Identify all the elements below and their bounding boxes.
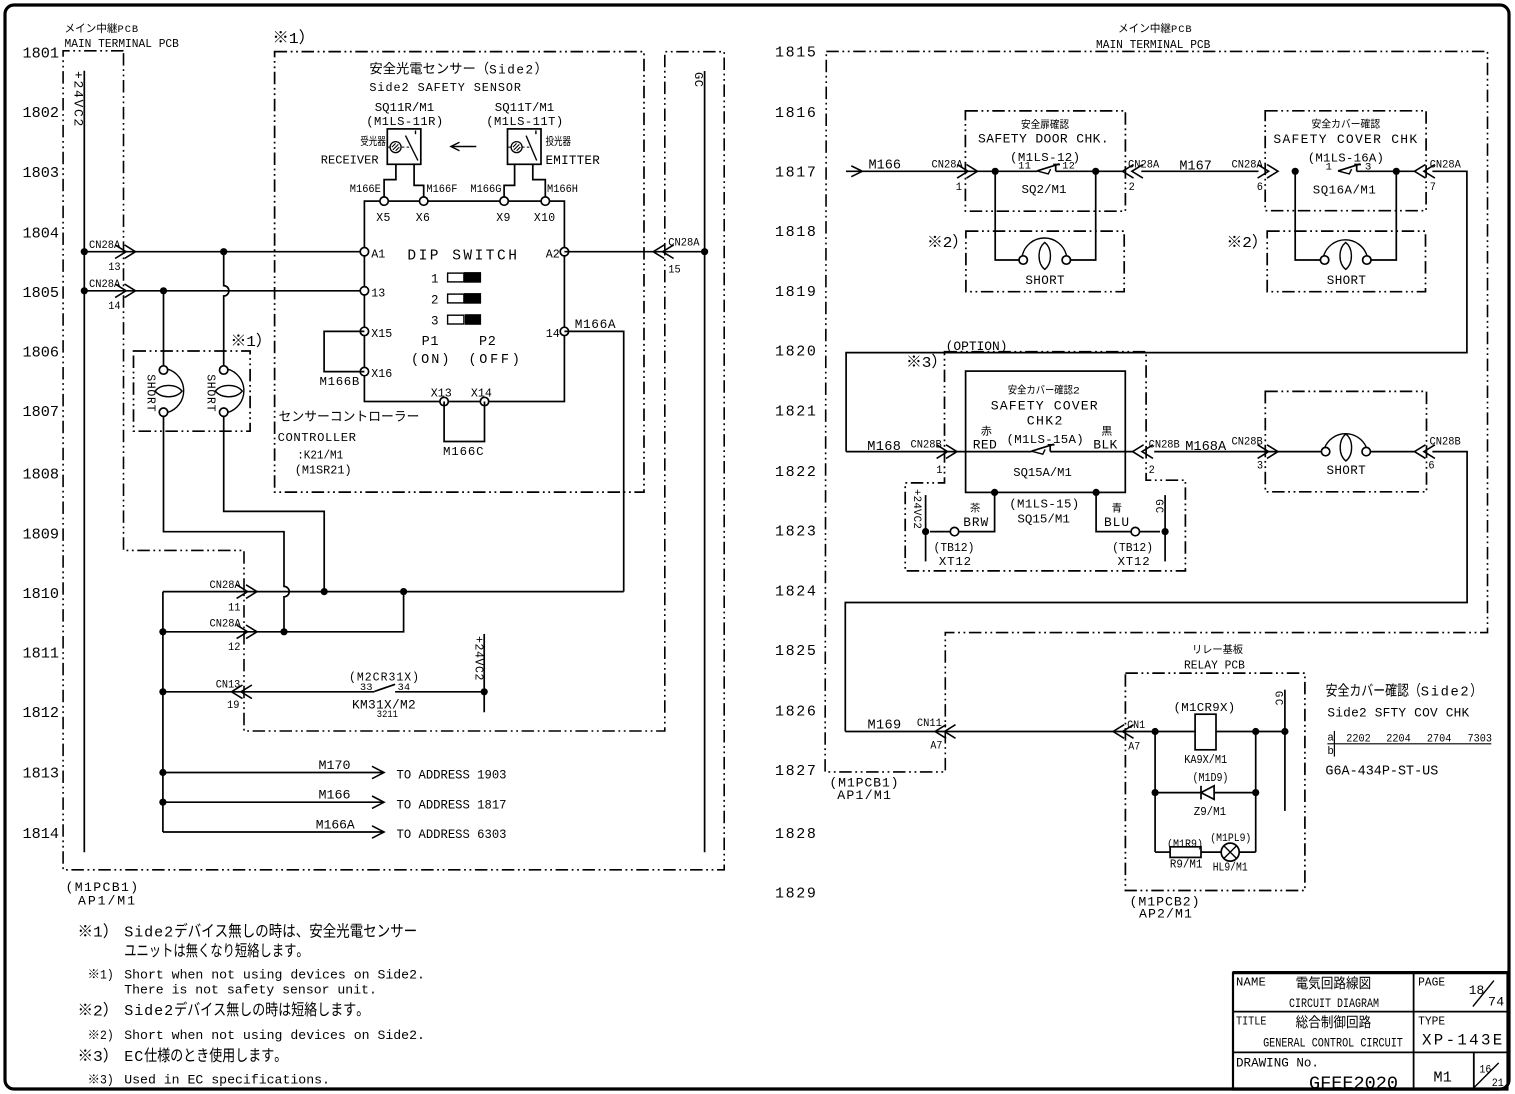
svg-text:1812: 1812: [23, 704, 59, 722]
terminal A2: [560, 248, 568, 256]
junction bus/12-wire: [159, 628, 166, 635]
svg-text:G6A-434P-ST-US: G6A-434P-ST-US: [1325, 764, 1438, 779]
wire CN13-19 (row 1812): [163, 691, 374, 693]
arrow M166 source: [851, 166, 862, 177]
title block column line: [1413, 973, 1415, 1090]
svg-text:M167: M167: [1179, 160, 1211, 175]
note *1 japanese line1: [80, 925, 91, 936]
svg-text:EMITTER: EMITTER: [546, 154, 601, 168]
svg-text:CN28A: CN28A: [89, 279, 121, 291]
svg-text:1817: 1817: [775, 164, 818, 181]
safety sensor unit dashed box (*1): [275, 52, 644, 493]
svg-text:CN28A: CN28A: [89, 240, 121, 252]
svg-text:a: a: [1327, 732, 1334, 744]
short box (*2) left dashed: [966, 231, 1124, 292]
svg-text:SQ2/M1: SQ2/M1: [1022, 183, 1067, 197]
dip switch 3: [448, 315, 464, 324]
contact SQ15A/M1: [1032, 444, 1054, 451]
svg-text:M169: M169: [868, 718, 902, 733]
svg-text:CN11: CN11: [917, 718, 942, 730]
svg-text:SQ11T/M1: SQ11T/M1: [495, 101, 554, 115]
connector chevrons CN28A pin6: [1267, 165, 1278, 179]
emitter switch blade: [526, 136, 537, 161]
svg-text:1: 1: [246, 334, 256, 351]
wire door-chk left to jumper: [995, 171, 1019, 260]
svg-text:BLU: BLU: [1104, 515, 1130, 530]
connector chevrons CN28A pin7 (left-pointing): [1415, 165, 1426, 179]
svg-text:SHORT: SHORT: [143, 374, 156, 412]
wire emitter pin to X9: [504, 164, 514, 197]
label safety cover check2 japanese: [1008, 385, 1016, 395]
svg-text:3: 3: [1257, 460, 1263, 472]
svg-text:AP1/M1: AP1/M1: [78, 893, 137, 908]
wire A2 to CN28A-15 and GC rail: [564, 251, 704, 253]
svg-text:A1: A1: [371, 248, 385, 261]
svg-text:(M1SR21): (M1SR21): [295, 463, 352, 477]
wire M170 to address 1903: [163, 772, 384, 774]
junction cover-chk right: [1393, 168, 1400, 175]
label red japanese: [981, 426, 991, 436]
svg-text:CN28A: CN28A: [1232, 159, 1264, 171]
short-plugs dashed box (*1): [134, 351, 251, 431]
note *1 japanese line2: [125, 945, 135, 955]
contact KM31X/M2 33-34 (slash): [374, 684, 395, 691]
svg-text:1804: 1804: [23, 224, 59, 242]
svg-text:14: 14: [546, 328, 560, 341]
svg-text:2: 2: [1149, 465, 1155, 477]
wire branch to SHORT plug 1 (from CN28A-14): [163, 291, 165, 366]
note *3 japanese: [80, 1049, 91, 1060]
svg-text:19: 19: [227, 700, 239, 712]
svg-text:NAME: NAME: [1236, 976, 1266, 990]
svg-text:A7: A7: [1128, 741, 1140, 753]
svg-text:TO ADDRESS 1903: TO ADDRESS 1903: [397, 767, 507, 783]
svg-text:13: 13: [108, 262, 120, 274]
note *3 english: [89, 1074, 98, 1083]
svg-text:CONTROLLER: CONTROLLER: [278, 431, 357, 445]
terminal TB12 BLU: [1131, 527, 1139, 535]
svg-text:1: 1: [936, 465, 942, 477]
svg-text:AP2/M1: AP2/M1: [1139, 907, 1193, 922]
label relay pcb japanese: [1194, 645, 1200, 654]
svg-text:X15: X15: [371, 328, 392, 341]
svg-text:1811: 1811: [23, 645, 59, 663]
svg-text:+24VC2: +24VC2: [910, 489, 922, 529]
svg-text:PAGE: PAGE: [1418, 975, 1445, 990]
svg-text:EC: EC: [124, 1048, 144, 1066]
short plug SHORT 1 (jumper): [159, 366, 167, 374]
svg-text:RECEIVER: RECEIVER: [321, 153, 379, 167]
wire M168 (row 1821) to contact: [846, 451, 1031, 453]
junction chk2 bottom left: [991, 489, 998, 496]
wire cover-chk right to jumper: [1371, 171, 1396, 260]
svg-text:X16: X16: [371, 368, 392, 381]
svg-text:+24VC2: +24VC2: [70, 71, 85, 128]
wire cover-chk left to jumper: [1295, 171, 1320, 260]
svg-text:1820: 1820: [775, 344, 818, 361]
label sensor controller japanese: [279, 411, 290, 421]
option dashed outline: [905, 352, 1185, 571]
wire chk2 right to TB12 BLU terminal: [1096, 492, 1160, 531]
power stub +24VC2 (row 1812): [483, 634, 485, 712]
net GC stub (TB12): [1164, 495, 1166, 561]
svg-text:SHORT: SHORT: [1327, 274, 1367, 288]
svg-text:CN1: CN1: [1127, 719, 1145, 731]
svg-text:RELAY PCB: RELAY PCB: [1184, 660, 1245, 673]
terminal 13: [360, 287, 368, 295]
svg-text:SAFETY DOOR CHK.: SAFETY DOOR CHK.: [978, 131, 1109, 146]
wire resistor to lamp: [1201, 851, 1221, 853]
svg-text:11: 11: [228, 602, 240, 614]
junction +24VC2 / CN28A-14: [81, 287, 88, 294]
terminal A1: [360, 248, 368, 256]
dip switch 2: [448, 294, 464, 303]
wire CN28A-12 (row 1811) with riser to 11-wire: [163, 592, 404, 632]
svg-text:AP1/M1: AP1/M1: [837, 788, 892, 803]
junction relay wire right: [1252, 728, 1259, 735]
svg-text:11: 11: [1018, 161, 1031, 172]
terminal X5: [380, 197, 388, 205]
svg-text:TYPE: TYPE: [1418, 1014, 1445, 1029]
label *2) left: [929, 236, 940, 247]
title block row line 2: [1233, 1051, 1508, 1053]
svg-text:MAIN TERMINAL PCB: MAIN TERMINAL PCB: [65, 37, 179, 52]
svg-text:1813: 1813: [23, 765, 59, 783]
connector chevrons CN28A pin13: [125, 245, 136, 259]
svg-text:PCB: PCB: [118, 24, 140, 36]
wire relay left branch down: [1154, 732, 1156, 853]
junction CN28A-13 branch to SHORT plug 2: [220, 248, 227, 255]
label *3): [908, 355, 919, 366]
svg-text:Side2: Side2: [124, 1002, 174, 1020]
svg-text:A2: A2: [546, 248, 560, 261]
note *2 japanese: [80, 1004, 91, 1015]
safety cover check dashed box: [1265, 111, 1426, 211]
svg-text:CN28B: CN28B: [1149, 439, 1180, 451]
junction diode left: [1152, 789, 1159, 796]
wire KM31X to +24VC2 stub: [395, 691, 484, 693]
svg-text:X5: X5: [376, 212, 391, 225]
svg-text:BRW: BRW: [963, 515, 989, 530]
svg-text:Z9/M1: Z9/M1: [1194, 806, 1226, 820]
jumper M166B loop X15-X16: [324, 331, 364, 371]
svg-text:1821: 1821: [775, 404, 818, 421]
svg-text:2: 2: [431, 293, 439, 307]
connector chevrons CN28A pin2 (left-pointing): [1123, 165, 1134, 179]
svg-text:M170: M170: [319, 758, 351, 773]
connector chevrons CN28A pin1: [967, 165, 978, 179]
svg-text:SAFETY COVER: SAFETY COVER: [991, 398, 1099, 413]
svg-text:1819: 1819: [775, 284, 818, 301]
svg-text:(M1LS-16A): (M1LS-16A): [1308, 152, 1384, 166]
svg-text:M1: M1: [1433, 1068, 1451, 1086]
wire M167 between blocks: [1141, 170, 1258, 172]
svg-text:SHORT: SHORT: [204, 374, 217, 412]
wire CN28A-13 from +24VC2 to controller A1: [84, 251, 364, 253]
svg-text:HL9/M1: HL9/M1: [1213, 862, 1248, 875]
wire resistor-lamp branch: [1155, 851, 1170, 853]
svg-text:CN28A: CN28A: [668, 237, 700, 249]
left board outline M1PCB1 AP1/M1 (dash-dot): [63, 51, 724, 870]
svg-text:GC: GC: [1271, 691, 1283, 707]
svg-text:1803: 1803: [23, 164, 59, 182]
junction on CN28A-11 wire: [321, 588, 328, 595]
svg-text:P2: P2: [479, 335, 497, 350]
svg-text:Side2: Side2: [489, 62, 534, 77]
label safety cover check japanese: [1312, 119, 1321, 129]
svg-text:1826: 1826: [775, 703, 818, 720]
terminal TB12 BRW: [950, 527, 958, 535]
svg-text:R9/M1: R9/M1: [1170, 858, 1202, 872]
receiver screw symbol: [388, 146, 412, 148]
svg-text:1815: 1815: [775, 45, 818, 62]
emitter screw symbol: [508, 146, 532, 148]
svg-text:1822: 1822: [775, 464, 818, 481]
wire M168A to short box: [1154, 451, 1321, 453]
connector chevrons CN28A pin12: [246, 625, 257, 639]
contact SQ16A/M1 1-3: [1338, 164, 1360, 171]
wire M169/CN11 row 1826: [845, 731, 1195, 733]
svg-text:M166F: M166F: [426, 184, 457, 196]
svg-text:Short when not using devices o: Short when not using devices on Side2.: [124, 967, 425, 982]
svg-text:2: 2: [1129, 182, 1135, 194]
label main terminal PCB (right, japanese): [1119, 24, 1127, 33]
right board outline M1PCB1 (dash-dot): [825, 51, 1487, 772]
junction diode right: [1252, 789, 1259, 796]
short box CN28B dashed: [1265, 391, 1426, 491]
svg-text:M166G: M166G: [470, 184, 501, 196]
title block row line 1: [1233, 1011, 1508, 1013]
wire M166 to address 1817: [163, 801, 384, 803]
svg-text:M166E: M166E: [350, 184, 381, 196]
svg-text:X9: X9: [496, 212, 511, 225]
label blue japanese: [1112, 503, 1121, 513]
wire CN28B-6 to row 1824 loop to relay row: [845, 452, 1467, 732]
power rail +24VC2 (left): [83, 71, 85, 852]
svg-text:SQ11R/M1: SQ11R/M1: [375, 101, 434, 115]
connector chevrons CN28A pin11: [246, 585, 257, 599]
svg-text:TO ADDRESS 6303: TO ADDRESS 6303: [397, 827, 507, 843]
svg-text:1825: 1825: [775, 643, 818, 660]
label *1) top: [275, 31, 287, 43]
svg-text:6: 6: [1428, 460, 1434, 472]
svg-text:(ON): (ON): [411, 353, 452, 368]
svg-text:Side2: Side2: [1421, 685, 1470, 701]
svg-text:(M2CR31X): (M2CR31X): [349, 671, 420, 684]
diode Z9/M1 (M1D9): [1200, 786, 1202, 800]
contact SQ2/M1 11-12: [1037, 164, 1059, 171]
wire diode branch: [1155, 792, 1201, 794]
svg-text:1814: 1814: [23, 825, 59, 843]
svg-text:X14: X14: [471, 388, 492, 401]
svg-text:2: 2: [1242, 235, 1252, 252]
svg-text:DIP SWITCH: DIP SWITCH: [407, 249, 519, 265]
svg-text:X6: X6: [416, 212, 431, 225]
svg-text:Side2: Side2: [124, 924, 174, 942]
svg-text:(M1LS-11R): (M1LS-11R): [366, 115, 443, 129]
svg-text:2: 2: [93, 1003, 103, 1020]
svg-text:M168A: M168A: [1185, 440, 1227, 455]
wire receiver pin to X5: [384, 164, 396, 197]
svg-text:A7: A7: [930, 740, 942, 752]
wire short plug2 to row-1810 wire: [224, 416, 325, 591]
svg-text:SHORT: SHORT: [1327, 464, 1367, 478]
svg-text:GC: GC: [1152, 499, 1164, 514]
short jumper CN28B (plug): [1321, 447, 1329, 455]
junction GC stub (TB12): [1162, 528, 1169, 535]
svg-text:GENERAL CONTROL CIRCUIT: GENERAL CONTROL CIRCUIT: [1263, 1036, 1403, 1050]
svg-text:1): 1): [100, 968, 114, 983]
wire receiver pin to X6: [414, 164, 424, 197]
svg-text:33: 33: [360, 683, 373, 694]
svg-text:CHK2: CHK2: [1027, 413, 1064, 428]
short box (*2) right dashed: [1267, 231, 1425, 292]
svg-text:CN28B: CN28B: [1430, 436, 1461, 448]
svg-text:14: 14: [108, 301, 120, 313]
connector chevrons CN28B pin1: [946, 445, 957, 459]
power stub +24VC2 (TB12): [925, 495, 927, 561]
relay coil M1CR9X: [1195, 714, 1216, 750]
svg-text:1824: 1824: [775, 584, 818, 601]
lamp HL9/M1 (M1PL9): [1221, 843, 1239, 861]
receiver SQ11R/M1 box: [387, 129, 421, 164]
resistor R9/M1 (M1R9): [1170, 847, 1201, 858]
label *1) near short plugs: [233, 334, 244, 345]
svg-text:1828: 1828: [775, 826, 818, 843]
sensor controller K21/M1 box: [364, 201, 564, 401]
svg-text:Side2 SAFETY SENSOR: Side2 SAFETY SENSOR: [369, 81, 522, 95]
svg-text:13: 13: [371, 287, 385, 300]
left bus wire (feeds rows 1810-1814): [162, 592, 164, 832]
svg-text:(M1D9): (M1D9): [1193, 772, 1229, 785]
svg-text:74: 74: [1488, 995, 1505, 1010]
svg-text:CN28B: CN28B: [1232, 436, 1263, 448]
svg-text:1: 1: [1326, 162, 1332, 174]
svg-text:1816: 1816: [775, 105, 818, 122]
label safety door check japanese: [1022, 119, 1031, 129]
net GC rail (left): [704, 71, 706, 852]
svg-text:XT12: XT12: [939, 555, 972, 569]
junction CN28A-14 branch to SHORT plug 1: [160, 287, 167, 294]
label safety photoelectric sensor (Side2) japanese: [370, 62, 382, 75]
wire door-chk right to jumper: [1071, 171, 1096, 260]
receiver switch blade: [406, 136, 418, 161]
svg-text:CN28A: CN28A: [932, 159, 964, 171]
wire CN28A-14 from +24VC2 to controller pin13: [84, 290, 364, 292]
junction GC rail (relay): [1281, 728, 1288, 735]
svg-text:XT12: XT12: [1118, 555, 1151, 569]
svg-text:1808: 1808: [23, 466, 59, 484]
wire M166A to address 6303: [163, 831, 384, 833]
terminal X14: [480, 397, 488, 405]
svg-text:2): 2): [100, 1029, 114, 1044]
svg-text:(OFF): (OFF): [469, 353, 523, 368]
svg-text::K21/M1: :K21/M1: [297, 450, 343, 462]
svg-text:RED: RED: [973, 438, 998, 453]
svg-text:SAFETY COVER CHK: SAFETY COVER CHK: [1273, 132, 1418, 147]
emitter SQ11T/M1 box: [508, 129, 542, 164]
svg-text:3: 3: [93, 1049, 103, 1066]
svg-text:SQ15A/M1: SQ15A/M1: [1013, 466, 1071, 480]
terminal X16: [360, 367, 368, 375]
svg-text:BLK: BLK: [1093, 438, 1118, 453]
svg-text:GFEE2020: GFEE2020: [1309, 1073, 1398, 1094]
terminal X9: [500, 197, 508, 205]
label main terminal PCB (left, japanese): [66, 24, 74, 33]
connector chevrons CN28A pin15 (left-pointing): [653, 245, 664, 259]
svg-text:CN28A: CN28A: [1128, 159, 1160, 171]
svg-text:MAIN TERMINAL PCB: MAIN TERMINAL PCB: [1096, 37, 1210, 52]
short plug SHORT 2 (jumper): [220, 366, 228, 374]
svg-text:CN13: CN13: [216, 679, 240, 691]
label general control circuit japanese: [1296, 1015, 1308, 1028]
svg-text:12: 12: [1062, 161, 1075, 172]
svg-text:(M1LS-11T): (M1LS-11T): [486, 115, 563, 129]
svg-text:1801: 1801: [23, 44, 59, 62]
svg-text:CN28A: CN28A: [210, 580, 242, 592]
svg-text:(TB12): (TB12): [1112, 541, 1153, 556]
wire chk2 left to TB12 BRW terminal: [930, 492, 995, 531]
label safety cover chk side2 japanese: [1326, 683, 1337, 697]
svg-text:1807: 1807: [23, 403, 59, 421]
junction chk2 bottom right: [1093, 489, 1100, 496]
svg-text:M166: M166: [869, 158, 901, 173]
connector chevrons CN28B pin6 (left-pointing): [1415, 445, 1426, 459]
svg-text:b: b: [1327, 746, 1333, 758]
wire lamp to right branch: [1239, 851, 1256, 853]
svg-text:(M1R9): (M1R9): [1167, 838, 1203, 851]
svg-text:3211: 3211: [377, 708, 398, 720]
wire coil to GC rail: [1216, 731, 1285, 733]
wire emitter pin to X10: [533, 164, 546, 197]
svg-text:XP-143E: XP-143E: [1422, 1031, 1505, 1049]
terminal 14: [560, 327, 568, 335]
svg-text:16: 16: [1479, 1064, 1491, 1077]
svg-text:P1: P1: [422, 335, 440, 350]
junction 11-wire / riser from 12-wire: [400, 588, 407, 595]
svg-text:1: 1: [289, 31, 299, 48]
terminal X10: [541, 197, 549, 205]
svg-text:7: 7: [1430, 182, 1436, 194]
svg-text:(M1LS-15): (M1LS-15): [1009, 498, 1079, 512]
connector chevrons CN1-A7 (left-pointing): [1113, 725, 1124, 739]
svg-text:3): 3): [100, 1073, 114, 1088]
jumper M166C loop X13-X14: [444, 402, 484, 442]
junction on CN28A-12 wire: [280, 628, 287, 635]
dip switch 1: [448, 273, 464, 282]
svg-text:M166C: M166C: [443, 445, 484, 459]
svg-text:M168: M168: [867, 440, 901, 455]
title block frame: [1233, 973, 1508, 1090]
svg-text:2: 2: [1073, 386, 1080, 397]
svg-text:12: 12: [228, 642, 240, 654]
address table divider: [1327, 743, 1491, 745]
terminal X13: [440, 397, 448, 405]
wire M166 into board (row 1817): [846, 170, 1037, 172]
junction door-chk right: [1092, 168, 1099, 175]
svg-text:SQ15/M1: SQ15/M1: [1017, 513, 1069, 527]
wire CN28A-11 (row 1810): [163, 591, 624, 593]
svg-text:CIRCUIT DIAGRAM: CIRCUIT DIAGRAM: [1289, 996, 1379, 1012]
svg-text:There is not safety sensor uni: There is not safety sensor unit.: [124, 982, 377, 997]
svg-text:15: 15: [668, 264, 680, 276]
svg-text:M166B: M166B: [320, 375, 360, 389]
terminal X15: [360, 327, 368, 335]
light beam arrow (emitter to receiver): [451, 146, 476, 148]
junction relay wire left: [1152, 728, 1159, 735]
short jumper SQ2 (plug): [1019, 256, 1027, 264]
svg-text:1827: 1827: [775, 763, 818, 780]
